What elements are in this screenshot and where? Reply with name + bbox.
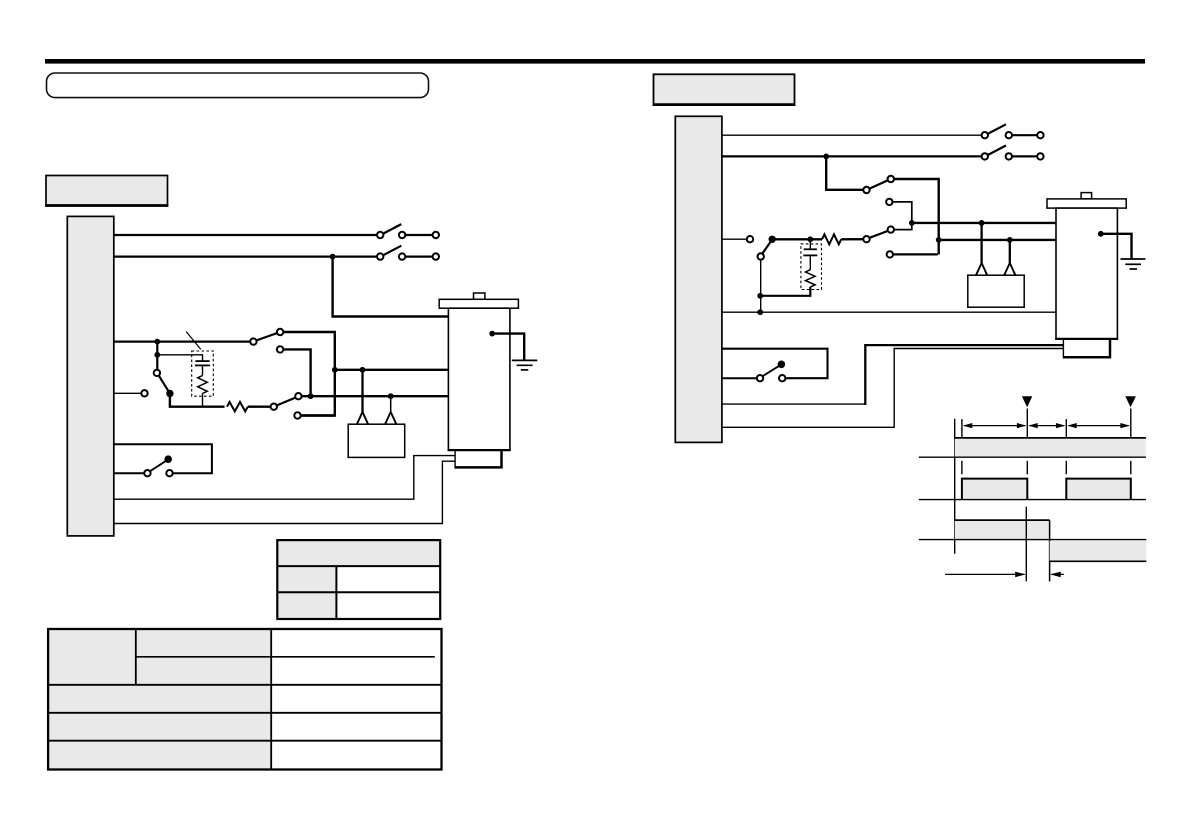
wire: junction down to switch SW8 <box>826 156 863 189</box>
capacitor C1 <box>195 361 210 375</box>
wire: SW8 contact to right bus <box>894 179 939 254</box>
transformer T2 primary lead 1 <box>980 223 982 264</box>
node transformer tap 1 <box>360 367 366 373</box>
tick d <box>1130 409 1132 438</box>
node transformer tap 2 (right) <box>1007 237 1013 243</box>
wire: lower winding feed to motor M1 <box>302 395 449 397</box>
transformer T2 arrow 1 <box>976 263 987 275</box>
wire: R3 to SW9 common <box>841 238 863 240</box>
relay RY1 coil feed wire <box>114 392 142 394</box>
relay RY1 contact <box>154 370 174 398</box>
wire: CN2 return 1 to motor base <box>722 403 866 405</box>
small table (legend) <box>277 540 440 619</box>
tick a <box>961 419 963 438</box>
node on right bus <box>936 237 942 243</box>
dimension arrow 2 <box>1028 423 1065 428</box>
node on bus at winding wire <box>332 367 338 373</box>
sub tick c <box>1065 461 1067 474</box>
wire: CN2 pin1 to door switch SW6 <box>722 134 982 136</box>
transformer T2 box <box>968 275 1024 307</box>
bottom dimension arrow left <box>945 572 1026 578</box>
sub tick d <box>1130 461 1132 474</box>
switch SW4 (speed select) <box>271 393 302 419</box>
wire: CN1 pin1 to door switch SW1 <box>114 234 377 236</box>
motor M1 body <box>448 308 510 450</box>
measure line t2 <box>1049 520 1051 581</box>
switch SW11 loop (start switch right) <box>722 349 828 382</box>
dimension arrow 1 <box>963 423 1026 428</box>
baseline 3 <box>919 539 1147 541</box>
wire: CN2 return 2 to motor base <box>722 349 1064 428</box>
switch SW3 (SPDT selector) <box>250 329 283 353</box>
transformer T2 arrow 2 <box>1004 263 1015 275</box>
transformer T1 arrow 2 <box>385 412 396 424</box>
wire: R2 to SW4 common <box>248 406 271 408</box>
node mid bus <box>909 220 915 226</box>
resistor R3 <box>822 234 841 244</box>
wire: CN2 pin2 to door switch SW7 <box>722 155 982 157</box>
switch SW6 (door) <box>982 124 1044 138</box>
junction on pin3 wire <box>154 339 160 345</box>
chart axis <box>954 419 956 554</box>
wire: CN1 pin2 to door switch SW2 <box>114 255 377 257</box>
resistor R2 <box>227 402 248 411</box>
connector CN1 (left) <box>67 216 114 536</box>
wire: relay contact to resistor R2 <box>170 394 225 407</box>
band 3 (output high) <box>955 520 1050 540</box>
snubber dashed outline <box>192 351 214 396</box>
bottom dimension arrow right <box>1050 572 1064 578</box>
motor M1 flange <box>439 299 518 308</box>
ground symbol (left) <box>512 360 538 370</box>
label box (right diagram heading) <box>653 74 796 105</box>
band 2 pulse A <box>962 479 1027 500</box>
motor M2 bottom edge <box>1055 338 1118 340</box>
wire: junction down to relay contact <box>156 341 158 370</box>
motor M1 base box <box>455 450 503 468</box>
junction on pin2 wire <box>330 254 336 260</box>
wire: mid node to motor M2 <box>912 222 1056 224</box>
ground symbol (right) <box>1121 259 1146 269</box>
motor M2 body <box>1056 208 1117 339</box>
wire: junction down and right to motor M1 <box>333 257 449 317</box>
big table (specifications) <box>48 629 441 770</box>
wire: RC tap to capacitor <box>157 355 202 361</box>
switch SW8 (selector upper) <box>863 176 894 193</box>
capacitor C2 lead <box>809 239 811 249</box>
sub tick a <box>961 461 963 474</box>
switch SW5 loop (start switch) <box>114 444 212 476</box>
tick c <box>1065 419 1067 438</box>
switch SW10 contact (lower) <box>887 251 893 257</box>
wire: SW9 contact to mid node <box>893 202 912 230</box>
capacitor C2 <box>803 249 817 269</box>
wire: SW3 lower contact down <box>283 349 310 396</box>
motor M2 terminal cap <box>1081 193 1092 199</box>
transformer T1 box <box>348 424 405 457</box>
relay RY2 feed wire <box>722 238 747 240</box>
band 1 (power on) <box>955 438 1146 457</box>
tick b <box>1026 409 1028 438</box>
wire: CN1 return 2 to motor base <box>114 461 455 523</box>
motor M1 terminal cap <box>474 293 485 299</box>
wire: SW10 contact to bus bottom <box>893 253 938 255</box>
resistor R1 (vertical in snubber) <box>198 376 208 394</box>
node transformer tap 1 (right) <box>979 220 985 226</box>
node at lower contact join <box>308 393 314 399</box>
marker triangle 2 <box>1125 396 1136 407</box>
transformer T1 primary lead 1 <box>361 370 363 413</box>
wire: snubber bottom to NC node <box>760 287 810 296</box>
switch SW9 contact (upper tap) <box>886 199 892 205</box>
motor M2 flange <box>1047 199 1126 208</box>
switch SW7 (door) <box>982 146 1044 160</box>
relay RY2 contact <box>758 236 776 260</box>
wire: winding feed to motor M1 <box>335 369 449 371</box>
wire: snubber bottom lead <box>202 394 204 407</box>
label box (left diagram heading) <box>45 176 168 206</box>
wire: RY2 common to resistor R3 <box>772 238 822 240</box>
relay RY2 terminal <box>747 236 753 242</box>
node transformer tap 2 <box>388 393 394 399</box>
motor M2 base box <box>1063 339 1111 358</box>
node RC tap <box>154 352 160 358</box>
node on long wire <box>757 309 763 315</box>
resistor R4 (vertical in snubber) <box>806 270 816 287</box>
transformer T1 arrow 1 <box>357 412 368 424</box>
wire: bus node to motor M2 <box>939 239 1056 241</box>
relay actuation line <box>186 332 201 350</box>
band 4 (output low) <box>1050 541 1147 561</box>
junction on pin2 wire <box>823 154 829 160</box>
switch SW1 (door) <box>377 224 439 238</box>
node RC tap (right) <box>807 236 813 242</box>
transformer T1 primary lead 2 <box>390 396 392 412</box>
baseline 2 <box>919 499 1146 501</box>
switch SW2 (door) <box>377 246 439 260</box>
motor M1 ground wire <box>489 331 524 361</box>
wire: SW4 lower contact to bus <box>301 414 335 416</box>
wire: CN2 pin3 long run to motor M2 <box>722 311 1056 313</box>
wire: CN1 pin3 to relay RY1 common <box>114 340 250 342</box>
motor M1 bottom edge <box>448 449 511 451</box>
transformer T2 primary lead 2 <box>1009 240 1011 264</box>
connector CN2 (right) <box>675 116 722 442</box>
wire: RY2 NC contact down <box>760 260 762 313</box>
sub tick b <box>1026 461 1028 474</box>
wire: SW3 upper contact to bus <box>283 332 334 416</box>
band 2 pulse B <box>1066 479 1131 500</box>
page header rule <box>45 59 1145 64</box>
switch SW9 (selector main) <box>863 226 894 242</box>
timing chart <box>919 396 1147 581</box>
marker triangle 1 <box>1022 396 1032 407</box>
dimension arrow 3 <box>1067 423 1130 428</box>
motor M2 ground wire <box>1098 231 1132 259</box>
node NC join <box>757 293 763 299</box>
measure line t1 <box>1025 507 1027 582</box>
relay RY1 coil terminal <box>141 390 147 396</box>
title rounded box <box>47 73 429 98</box>
snubber dashed outline (right) <box>801 244 822 290</box>
baseline 1 <box>919 456 1146 458</box>
wire: CN1 return 1 to motor base <box>114 456 455 500</box>
